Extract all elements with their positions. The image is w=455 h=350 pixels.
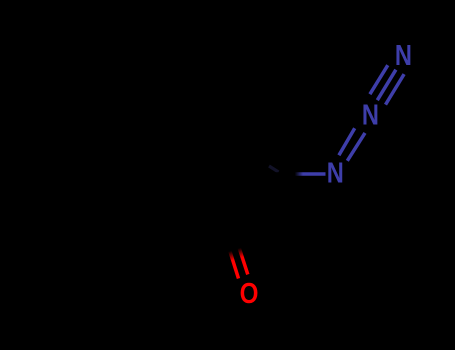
wire N1=N2 double bond line 1 [339,128,355,155]
wire C2-N1 single bond [270,172,326,176]
wire N2#N3 triple bond line 1 [370,65,388,94]
svg-text:O: O [240,277,259,309]
wire N2#N3 triple bond line 3 [386,74,405,105]
wire N2#N3 triple bond line 2 [377,70,396,101]
wire C2-C3 faint skeleton fragment [269,166,279,172]
wire N1=N2 double bond line 2 [347,133,365,161]
svg-text:N: N [362,98,379,131]
svg-text:N: N [327,156,344,189]
wire C1=O double bond line 1 [229,247,239,279]
svg-text:N: N [395,39,412,72]
wire C1=O double bond line 2 [238,244,248,274]
